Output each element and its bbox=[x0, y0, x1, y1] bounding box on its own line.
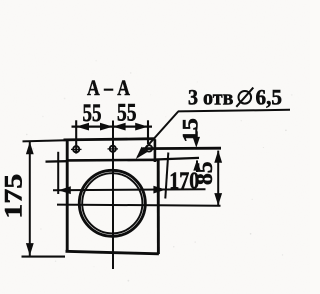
svg-text:175: 175 bbox=[1, 174, 28, 219]
svg-text:55: 55 bbox=[83, 100, 102, 127]
svg-text:3 отв: 3 отв bbox=[188, 85, 234, 110]
svg-text:85: 85 bbox=[192, 162, 217, 186]
svg-text:А – А: А – А bbox=[87, 75, 130, 100]
svg-text:6,5: 6,5 bbox=[256, 85, 283, 110]
svg-text:15: 15 bbox=[177, 118, 202, 143]
svg-text:55: 55 bbox=[117, 100, 137, 127]
